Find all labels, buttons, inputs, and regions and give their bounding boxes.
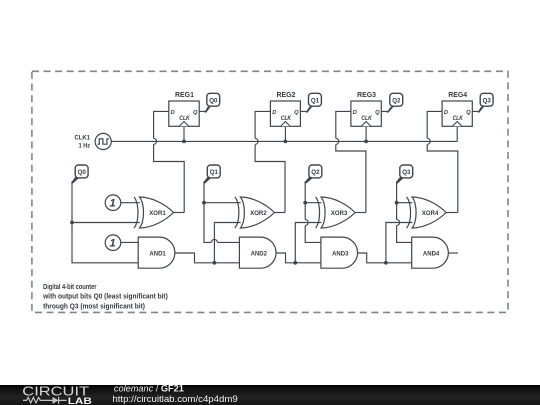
svg-text:Q: Q xyxy=(466,110,471,116)
svg-text:Q3: Q3 xyxy=(402,169,411,176)
XOR gate XOR1 xyxy=(134,197,174,228)
svg-text:http://circuitlab.com/c4p4dm9: http://circuitlab.com/c4p4dm9 xyxy=(112,394,237,404)
wire hop D4 over clock bus xyxy=(427,138,430,144)
wire REG4 Q pin to flag Q3 xyxy=(472,110,478,112)
clock source CLK1 symbol xyxy=(95,133,111,149)
node junction carry1 xyxy=(213,261,217,265)
svg-text:Q0: Q0 xyxy=(209,97,218,104)
XOR gate XOR3 xyxy=(316,197,356,228)
wire REG2 D input from XOR2 output xyxy=(255,111,285,212)
svg-text:Q: Q xyxy=(294,110,299,116)
wire XOR3 output xyxy=(355,212,366,214)
svg-text:Q: Q xyxy=(375,110,380,116)
wire Q0 branch to XOR1 bottom input xyxy=(72,222,140,224)
svg-text:AND1: AND1 xyxy=(149,250,166,257)
node junction Q2 branch xyxy=(303,201,307,205)
wire REG2 Q pin to flag Q1 xyxy=(300,110,306,112)
svg-text:D: D xyxy=(444,110,448,116)
svg-text:XOR4: XOR4 xyxy=(422,210,439,217)
wire constant 1a to XOR1 top input xyxy=(121,202,140,204)
node junction carry2 xyxy=(293,261,297,265)
footer bar xyxy=(0,385,540,405)
svg-text:with output bits Q0 (least sig: with output bits Q0 (least significant b… xyxy=(42,292,168,301)
wire REG1 D input from XOR1 output xyxy=(154,111,185,212)
wire REG2 CLK pin drop xyxy=(284,126,286,141)
wire Q2 branch to XOR3 top input xyxy=(305,202,321,204)
wire REG3 D input from XOR3 output xyxy=(336,111,366,212)
XOR gate XOR2 xyxy=(235,197,275,228)
svg-text:D: D xyxy=(272,110,276,116)
wire XOR2 output xyxy=(274,212,285,214)
svg-text:Q1: Q1 xyxy=(210,169,219,176)
wire clock bus CLK1 to REG4 CLK corner xyxy=(111,140,457,142)
svg-text:XOR3: XOR3 xyxy=(331,210,348,217)
wire REG1 CLK pin drop xyxy=(183,126,185,141)
wire node Q2 flag drop to AND3 top input (hop over carry branch) xyxy=(305,182,321,243)
wire AND1 output to AND2 bottom input xyxy=(175,253,240,263)
wire node Q3 flag drop to AND4 top input (hop over carry branch) xyxy=(397,182,412,243)
wire AND3 output to AND4 bottom input xyxy=(358,253,412,263)
AND gate AND4 xyxy=(412,237,449,268)
wire node Q1 flag drop to AND2 top input (hop over carry) xyxy=(204,182,239,243)
wire REG3 Q pin to flag Q2 xyxy=(381,110,387,112)
AND gate AND2 xyxy=(239,237,276,268)
svg-text:CLK1: CLK1 xyxy=(74,135,90,142)
wire REG1 Q pin to flag Q0 xyxy=(199,110,205,112)
node junction Q1 branch xyxy=(202,201,206,205)
wire XOR4 output xyxy=(446,212,458,214)
wire Q3 branch to XOR4 top input xyxy=(397,202,413,204)
wire AND2 output to AND3 bottom input xyxy=(276,253,321,263)
svg-text:CLK: CLK xyxy=(453,115,464,122)
svg-text:Q3: Q3 xyxy=(483,97,492,104)
wire hop Q1 branch over carry riser xyxy=(211,239,217,242)
node junction carry3 xyxy=(384,261,388,265)
svg-text:D: D xyxy=(171,110,175,116)
wire constant 1b to AND1 top input xyxy=(121,241,138,243)
svg-text:1: 1 xyxy=(110,198,116,210)
svg-text:Q2: Q2 xyxy=(392,97,401,104)
node flag Q1 (register output) xyxy=(306,93,322,112)
D flip-flop REG1 xyxy=(169,101,199,126)
wire AND4 output stub xyxy=(448,252,458,254)
svg-text:REG4: REG4 xyxy=(448,90,467,99)
constant logic 1 source 1b xyxy=(105,235,121,251)
wire carry riser to XOR4 bottom input xyxy=(386,223,413,263)
node flag Q2 (net label) xyxy=(304,165,322,184)
wire XOR1 output xyxy=(174,212,185,214)
wire hop D1 over clock bus xyxy=(154,138,157,144)
svg-text:1 Hz: 1 Hz xyxy=(79,143,91,150)
svg-text:XOR1: XOR1 xyxy=(149,210,166,217)
wire carry riser to XOR3 bottom input xyxy=(295,223,321,263)
svg-text:Q2: Q2 xyxy=(311,169,320,176)
schematic dashed border frame xyxy=(32,71,508,312)
wire hop Q2 drop over carry branch xyxy=(305,220,308,226)
node flag Q2 (register output) xyxy=(387,93,403,112)
footer CircuitLab logo xyxy=(22,383,92,405)
svg-text:Q0: Q0 xyxy=(78,169,87,176)
node junction Q3 branch xyxy=(395,201,399,205)
svg-text:Digital 4-bit counter: Digital 4-bit counter xyxy=(43,282,96,291)
node junction Q0 branch xyxy=(70,221,74,225)
node junction clock at REG1 xyxy=(182,140,186,144)
svg-text:CLK: CLK xyxy=(361,115,372,122)
svg-text:XOR2: XOR2 xyxy=(250,210,267,217)
node flag Q1 (net label) xyxy=(203,165,220,184)
svg-text:1: 1 xyxy=(110,238,116,250)
node flag Q3 (register output) xyxy=(478,93,494,112)
svg-text:through Q3 (most significant b: through Q3 (most significant bit) xyxy=(43,302,145,311)
svg-text:CLK: CLK xyxy=(179,115,190,122)
wire REG3 CLK pin drop xyxy=(365,126,367,141)
wire Q1 branch to XOR2 top input xyxy=(204,202,241,204)
XOR gate XOR4 xyxy=(407,197,447,228)
svg-text:REG3: REG3 xyxy=(357,90,376,99)
node flag Q0 (register output) xyxy=(204,93,219,112)
D flip-flop REG4 xyxy=(442,101,472,126)
wire node Q0 flag drop and AND1 bottom input xyxy=(72,182,138,263)
svg-text:REG2: REG2 xyxy=(276,90,295,99)
wire REG4 CLK pin drop xyxy=(456,126,458,141)
wire carry riser to XOR2 bottom input xyxy=(214,223,240,263)
AND gate AND1 xyxy=(138,237,175,268)
svg-text:Q1: Q1 xyxy=(311,97,320,104)
svg-text:CLK: CLK xyxy=(281,115,292,122)
node junction clock at REG3 xyxy=(364,140,368,144)
svg-text:AND2: AND2 xyxy=(251,250,268,257)
node flag Q0 (net label) xyxy=(71,165,88,184)
wire hop D2 over clock bus xyxy=(255,138,258,144)
wire hop Q3 drop over carry branch xyxy=(397,220,400,226)
D flip-flop REG3 xyxy=(351,101,381,126)
node flag Q3 (net label) xyxy=(396,165,413,184)
wire hop D3 over clock bus xyxy=(336,138,339,144)
D flip-flop REG2 xyxy=(270,101,300,126)
svg-text:Q: Q xyxy=(193,110,198,116)
svg-text:AND3: AND3 xyxy=(332,250,349,257)
svg-text:REG1: REG1 xyxy=(175,90,194,99)
svg-text:LAB: LAB xyxy=(68,396,92,405)
svg-text:AND4: AND4 xyxy=(423,250,440,257)
node junction clock at REG2 xyxy=(284,140,288,144)
svg-text:D: D xyxy=(353,110,357,116)
svg-text:colemanc / GF21: colemanc / GF21 xyxy=(114,384,184,394)
wire REG4 D input from XOR4 output xyxy=(427,111,458,212)
constant logic 1 source 1a xyxy=(105,195,121,211)
AND gate AND3 xyxy=(321,237,358,268)
